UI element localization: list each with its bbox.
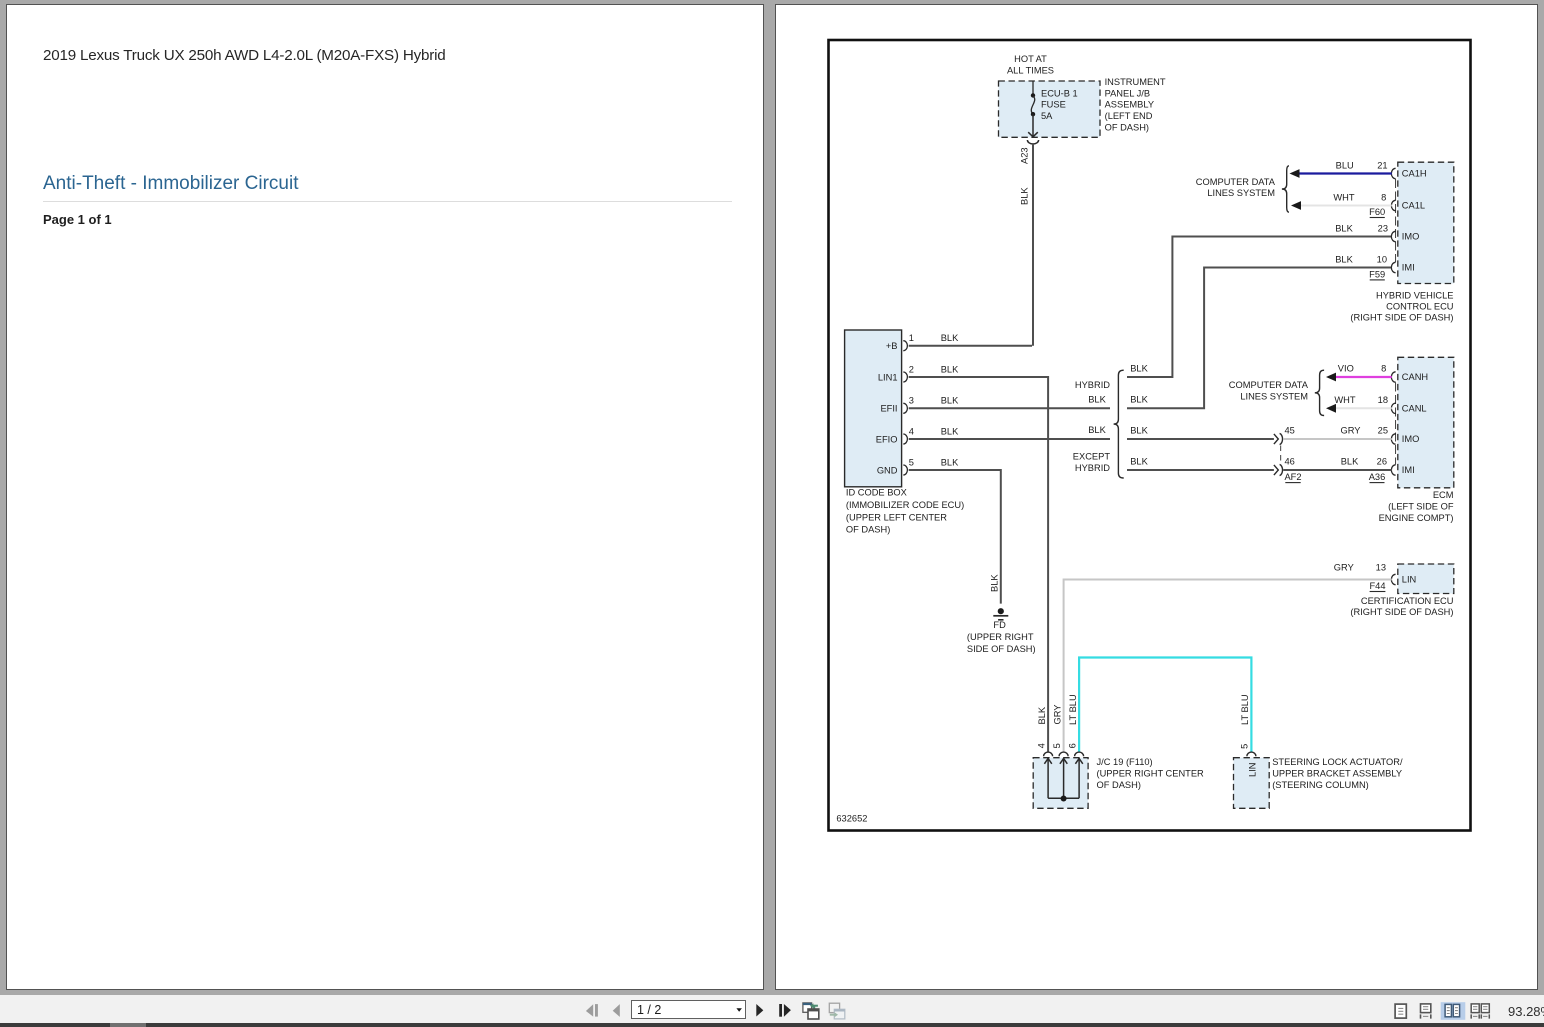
svg-text:IMO: IMO: [1402, 434, 1420, 444]
svg-text:BLK: BLK: [1335, 224, 1353, 234]
svg-text:BLK: BLK: [1335, 255, 1353, 265]
svg-text:BLK: BLK: [1130, 395, 1148, 405]
svg-text:FUSE: FUSE: [1041, 100, 1066, 110]
svg-text:3: 3: [909, 396, 914, 406]
svg-text:8: 8: [1381, 364, 1386, 374]
svg-text:5: 5: [1052, 743, 1062, 748]
svg-text:WHT: WHT: [1333, 193, 1354, 203]
svg-text:GRY: GRY: [1334, 563, 1354, 573]
svg-text:LINES SYSTEM: LINES SYSTEM: [1240, 392, 1308, 402]
svg-text:BLK: BLK: [1020, 187, 1030, 205]
svg-text:BLK: BLK: [941, 426, 959, 436]
svg-text:23: 23: [1378, 224, 1388, 234]
svg-text:6: 6: [1067, 743, 1077, 748]
svg-text:J/C 19 (F110): J/C 19 (F110): [1097, 757, 1153, 767]
svg-text:(RIGHT SIDE OF DASH): (RIGHT SIDE OF DASH): [1350, 313, 1453, 323]
svg-text:21: 21: [1377, 161, 1387, 171]
svg-text:IMI: IMI: [1402, 263, 1415, 273]
svg-text:F60: F60: [1369, 207, 1385, 217]
svg-text:AF2: AF2: [1284, 472, 1301, 482]
svg-text:BLK: BLK: [1037, 706, 1047, 724]
svg-text:ID CODE BOX: ID CODE BOX: [846, 488, 907, 498]
svg-text:VIO: VIO: [1338, 364, 1354, 374]
svg-text:5: 5: [909, 457, 914, 467]
svg-text:A36: A36: [1369, 472, 1386, 482]
svg-text:HYBRID VEHICLE: HYBRID VEHICLE: [1376, 290, 1454, 300]
svg-text:ECU-B 1: ECU-B 1: [1041, 88, 1078, 98]
svg-text:SIDE OF DASH): SIDE OF DASH): [967, 644, 1036, 654]
svg-text:LT BLU: LT BLU: [1240, 694, 1250, 725]
svg-text:CANH: CANH: [1402, 372, 1428, 382]
svg-text:CANL: CANL: [1402, 404, 1427, 414]
svg-text:COMPUTER DATA: COMPUTER DATA: [1229, 380, 1309, 390]
svg-text:4: 4: [909, 426, 914, 436]
svg-text:ALL TIMES: ALL TIMES: [1007, 66, 1054, 76]
svg-text:FD: FD: [993, 620, 1006, 630]
svg-text:PANEL J/B: PANEL J/B: [1105, 88, 1150, 98]
svg-text:(RIGHT SIDE OF DASH): (RIGHT SIDE OF DASH): [1350, 607, 1453, 617]
svg-text:46: 46: [1285, 456, 1295, 466]
svg-text:IMI: IMI: [1402, 465, 1415, 475]
svg-text:EFII: EFII: [880, 404, 897, 414]
svg-text:ASSEMBLY: ASSEMBLY: [1105, 100, 1154, 110]
svg-text:18: 18: [1378, 395, 1388, 405]
svg-text:OF DASH): OF DASH): [1097, 780, 1141, 790]
svg-text:EXCEPT: EXCEPT: [1073, 451, 1111, 461]
svg-text:10: 10: [1377, 255, 1387, 265]
svg-text:EFIO: EFIO: [876, 434, 898, 444]
svg-text:(UPPER RIGHT CENTER: (UPPER RIGHT CENTER: [1097, 769, 1205, 779]
svg-text:26: 26: [1377, 456, 1387, 466]
svg-text:GRY: GRY: [1341, 425, 1361, 435]
svg-text:BLK: BLK: [1341, 456, 1359, 466]
svg-text:(LEFT SIDE OF: (LEFT SIDE OF: [1388, 502, 1454, 512]
svg-text:COMPUTER DATA: COMPUTER DATA: [1196, 177, 1276, 187]
svg-text:LIN1: LIN1: [878, 372, 898, 382]
svg-text:ECM: ECM: [1433, 490, 1454, 500]
svg-text:+B: +B: [886, 341, 898, 351]
svg-text:BLK: BLK: [1130, 456, 1148, 466]
svg-text:(IMMOBILIZER CODE ECU): (IMMOBILIZER CODE ECU): [846, 500, 964, 510]
svg-text:A23: A23: [1020, 147, 1030, 164]
svg-text:(UPPER LEFT CENTER: (UPPER LEFT CENTER: [846, 512, 947, 522]
svg-text:CONTROL ECU: CONTROL ECU: [1386, 302, 1453, 312]
svg-text:CA1H: CA1H: [1402, 169, 1427, 179]
svg-text:BLK: BLK: [1088, 425, 1106, 435]
svg-text:(UPPER RIGHT: (UPPER RIGHT: [967, 632, 1034, 642]
svg-text:IMO: IMO: [1402, 232, 1420, 242]
svg-text:OF DASH): OF DASH): [846, 525, 890, 535]
svg-text:BLU: BLU: [1336, 161, 1354, 171]
svg-text:13: 13: [1376, 563, 1386, 573]
svg-text:632652: 632652: [836, 814, 867, 824]
svg-text:(STEERING COLUMN): (STEERING COLUMN): [1272, 780, 1369, 790]
svg-text:LIN: LIN: [1402, 575, 1416, 585]
svg-text:F59: F59: [1369, 269, 1385, 279]
svg-text:F44: F44: [1369, 581, 1385, 591]
svg-text:BLK: BLK: [941, 364, 959, 374]
svg-text:OF DASH): OF DASH): [1105, 122, 1149, 132]
svg-text:BLK: BLK: [990, 574, 1000, 592]
svg-text:GRY: GRY: [1052, 705, 1062, 725]
svg-text:8: 8: [1381, 193, 1386, 203]
svg-text:ENGINE COMPT): ENGINE COMPT): [1379, 513, 1454, 523]
svg-text:HYBRID: HYBRID: [1075, 463, 1110, 473]
svg-text:4: 4: [1036, 743, 1046, 748]
svg-text:INSTRUMENT: INSTRUMENT: [1105, 77, 1166, 87]
svg-text:BLK: BLK: [941, 333, 959, 343]
svg-text:45: 45: [1285, 425, 1295, 435]
svg-text:LIN: LIN: [1248, 763, 1258, 777]
svg-text:5: 5: [1240, 744, 1250, 749]
svg-text:LINES SYSTEM: LINES SYSTEM: [1207, 188, 1275, 198]
svg-text:BLK: BLK: [1130, 425, 1148, 435]
svg-text:1: 1: [909, 333, 914, 343]
svg-text:5A: 5A: [1041, 111, 1053, 121]
svg-text:UPPER BRACKET ASSEMBLY: UPPER BRACKET ASSEMBLY: [1272, 769, 1402, 779]
svg-text:HOT AT: HOT AT: [1014, 54, 1047, 64]
svg-text:BLK: BLK: [1130, 363, 1148, 373]
svg-text:BLK: BLK: [1088, 394, 1106, 404]
svg-text:25: 25: [1378, 425, 1388, 435]
svg-text:(LEFT END: (LEFT END: [1105, 111, 1153, 121]
svg-text:BLK: BLK: [941, 396, 959, 406]
svg-text:BLK: BLK: [941, 457, 959, 467]
svg-text:GND: GND: [877, 465, 898, 475]
svg-text:HYBRID: HYBRID: [1075, 380, 1110, 390]
svg-text:LT BLU: LT BLU: [1068, 694, 1078, 725]
svg-text:2: 2: [909, 364, 914, 374]
svg-text:STEERING LOCK ACTUATOR/: STEERING LOCK ACTUATOR/: [1272, 757, 1403, 767]
svg-text:CERTIFICATION ECU: CERTIFICATION ECU: [1361, 596, 1454, 606]
svg-text:WHT: WHT: [1334, 395, 1355, 405]
svg-text:CA1L: CA1L: [1402, 201, 1425, 211]
